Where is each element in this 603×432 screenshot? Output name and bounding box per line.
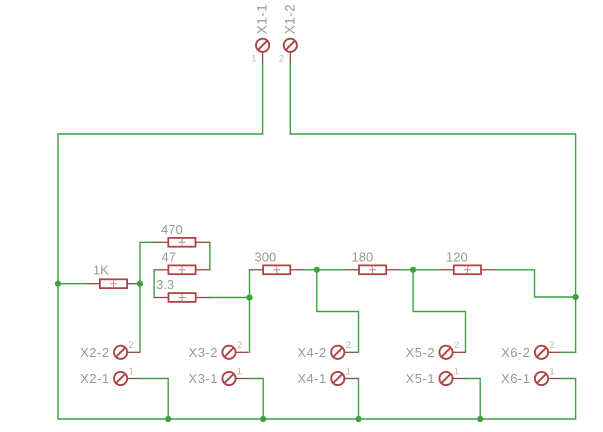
resistor 120 - body	[454, 265, 481, 274]
terminal X1-2 - pin	[289, 52, 291, 64]
terminal X3-2 - slash	[224, 347, 234, 357]
junction left rail / 1K	[55, 281, 61, 287]
resistor 1K - left lead	[86, 283, 100, 285]
svg-text:1: 1	[549, 366, 554, 377]
wire 180 right to junction	[400, 269, 413, 271]
resistor 1K - right lead	[127, 283, 141, 285]
junction rail / X4-1	[355, 416, 361, 422]
wire X3-1 to bottom rail	[249, 379, 264, 420]
terminal X6-2 - slash	[536, 347, 546, 357]
svg-text:X1-2: X1-2	[282, 4, 297, 35]
wire left rail to 1K	[58, 283, 85, 285]
terminal X2-1 - slash	[116, 373, 126, 383]
terminal X1-1 - pin	[262, 52, 264, 64]
terminal X6-1 - slash	[536, 373, 546, 383]
resistor 1K - body	[100, 279, 127, 288]
wire junction to 180 left	[317, 269, 345, 271]
terminal X2-2 - circle	[114, 346, 127, 359]
svg-text:2: 2	[346, 340, 351, 351]
svg-text:X2-1: X2-1	[80, 371, 109, 386]
resistor 300 - right lead	[290, 269, 304, 271]
svg-text:3.3: 3.3	[156, 277, 174, 292]
junction rail / X3-1	[260, 416, 266, 422]
terminal X5-2 - pin	[453, 351, 466, 353]
junction rail / X2-1	[165, 416, 171, 422]
svg-text:1: 1	[128, 366, 133, 377]
terminal X5-2 - circle	[439, 346, 452, 359]
junction 180/120	[410, 267, 416, 273]
terminal X4-1 - pin	[344, 378, 357, 380]
resistor 47 - right lead	[196, 269, 210, 271]
terminal X3-2 - pin	[236, 351, 249, 353]
svg-text:1: 1	[346, 366, 351, 377]
svg-text:X3-1: X3-1	[189, 371, 218, 386]
resistor 3.3 - origin cross	[179, 294, 186, 301]
resistor 300 - origin cross	[273, 266, 280, 273]
terminal X4-2 - circle	[331, 346, 344, 359]
resistor 47 - body	[168, 265, 195, 274]
svg-text:1: 1	[454, 366, 459, 377]
terminal X2-2 - pin	[127, 351, 140, 353]
resistor 470 - body	[168, 238, 195, 247]
terminal X3-1 - slash	[224, 373, 234, 383]
junction right rail / 120	[573, 294, 579, 300]
resistor 180 - origin cross	[369, 266, 376, 273]
resistor 47 - left lead	[154, 269, 168, 271]
resistor 470 - origin cross	[178, 239, 185, 246]
terminal X5-1 - slash	[441, 373, 451, 383]
junction node B	[246, 294, 252, 300]
svg-text:X4-2: X4-2	[297, 345, 326, 360]
resistor 1K - origin cross	[110, 280, 117, 287]
resistor 300 - body	[263, 265, 290, 274]
resistor 3.3 - body	[169, 293, 196, 302]
wire 470 right to 47 right	[209, 242, 211, 269]
terminal X5-1 - circle	[439, 372, 452, 385]
svg-text:1: 1	[251, 54, 256, 65]
junction node A	[137, 281, 143, 287]
junction 300/180	[314, 267, 320, 273]
terminal X3-2 - circle	[222, 346, 235, 359]
svg-text:1K: 1K	[93, 263, 109, 278]
terminal X2-2 - slash	[116, 347, 126, 357]
terminal X1-1 - slash	[258, 40, 268, 50]
svg-text:2: 2	[454, 340, 459, 351]
svg-text:X6-2: X6-2	[501, 345, 530, 360]
svg-text:300: 300	[255, 249, 277, 264]
terminal X4-1 - slash	[333, 373, 343, 383]
resistor 180 - body	[359, 265, 386, 274]
terminal X2-1 - pin	[127, 378, 140, 380]
terminal X1-1 - circle	[256, 39, 269, 52]
wire 47 left to 3.3 left	[153, 270, 155, 298]
resistor 470 - right lead	[196, 241, 210, 243]
wire X4-1 to bottom rail	[357, 379, 358, 420]
svg-text:X4-1: X4-1	[297, 371, 326, 386]
svg-text:X1-1: X1-1	[255, 4, 270, 35]
terminal X6-1 - pin	[548, 378, 561, 380]
terminal X4-1 - circle	[331, 372, 344, 385]
wire net from X1-1 via left rail, bottom rail to X6-1	[58, 64, 576, 419]
resistor 3.3 - left lead	[154, 297, 168, 299]
svg-text:X5-2: X5-2	[406, 345, 435, 360]
svg-text:470: 470	[161, 222, 183, 237]
resistor 470 - left lead	[154, 241, 168, 243]
svg-text:X5-1: X5-1	[406, 371, 435, 386]
svg-text:X6-1: X6-1	[501, 371, 530, 386]
terminal X5-1 - pin	[453, 378, 466, 380]
terminal X3-1 - circle	[222, 372, 235, 385]
resistor 3.3 - right lead	[196, 297, 210, 299]
resistor 120 - right lead	[481, 269, 495, 271]
resistor 120 - left lead	[440, 269, 454, 271]
svg-text:X2-2: X2-2	[80, 345, 109, 360]
wire junction 300/180 down to X4-2	[317, 270, 359, 353]
wire node A: 470 left, down to X2-2	[140, 242, 154, 352]
svg-text:2: 2	[549, 340, 554, 351]
wire junction 180/120 down to X5-2	[413, 270, 465, 353]
wire 3.3 right to node B	[210, 297, 250, 299]
junction rail / X5-1	[477, 416, 483, 422]
terminal X6-1 - circle	[535, 372, 548, 385]
terminal X5-2 - slash	[441, 347, 451, 357]
svg-text:2: 2	[279, 54, 284, 65]
resistor 180 - left lead	[345, 269, 359, 271]
wire X2-1 to bottom rail	[140, 379, 168, 420]
terminal X4-2 - pin	[344, 351, 357, 353]
svg-text:120: 120	[446, 249, 468, 264]
svg-text:X3-2: X3-2	[189, 345, 218, 360]
resistor 300 - left lead	[249, 269, 263, 271]
terminal X6-2 - circle	[535, 346, 548, 359]
svg-text:2: 2	[237, 340, 242, 351]
terminal X1-2 - slash	[285, 40, 295, 50]
terminal X3-1 - pin	[236, 378, 249, 380]
wire X5-1 to bottom rail	[466, 379, 481, 420]
resistor 47 - origin cross	[179, 266, 186, 273]
wire 120 right to right rail	[495, 270, 575, 297]
wire net from X1-2 via right rail to X6-2	[290, 64, 575, 352]
svg-text:1: 1	[237, 366, 242, 377]
resistor 120 - origin cross	[464, 266, 471, 273]
terminal X1-2 - circle	[284, 39, 297, 52]
svg-text:47: 47	[162, 249, 176, 264]
wire 300 right to junction	[304, 269, 317, 271]
wire junction to 120 left	[413, 269, 440, 271]
svg-text:2: 2	[128, 340, 133, 351]
terminal X2-1 - circle	[114, 372, 127, 385]
svg-text:180: 180	[352, 249, 374, 264]
terminal X4-2 - slash	[333, 347, 343, 357]
wire node B: up to 300 left, down to X3-2	[249, 270, 251, 353]
resistor 180 - right lead	[386, 269, 400, 271]
terminal X6-2 - pin	[548, 351, 561, 353]
